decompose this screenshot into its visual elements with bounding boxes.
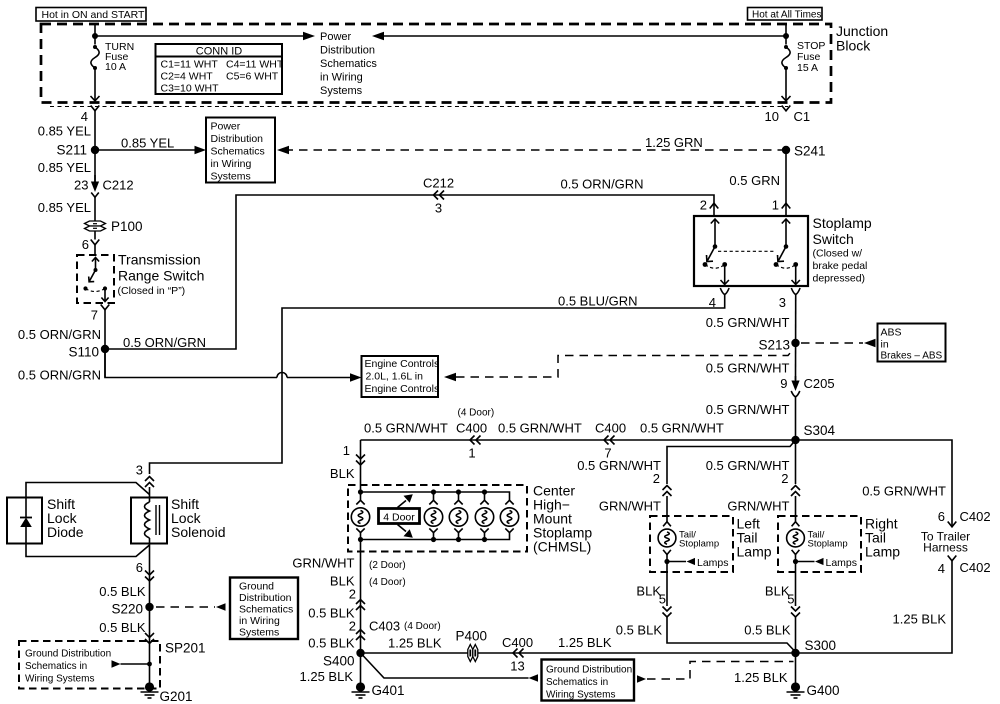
left tail lamp ground + Lamps branch xyxy=(664,555,728,573)
fuse TURN 10A xyxy=(91,41,134,73)
svg-text:C212: C212 xyxy=(423,176,454,191)
svg-text:depressed): depressed) xyxy=(813,273,866,285)
svg-text:S241: S241 xyxy=(794,144,826,159)
svg-text:(CHMSL): (CHMSL) xyxy=(533,539,591,555)
wire: dashed reference from ground box to G400 wire xyxy=(637,662,794,683)
svg-text:Distribution: Distribution xyxy=(320,45,375,57)
ground G400 xyxy=(787,682,840,698)
wire: TURN fuse output with arrow xyxy=(91,68,100,101)
wire: S220 to SP201 xyxy=(149,607,151,683)
svg-text:4 Door: 4 Door xyxy=(383,512,415,524)
svg-text:C212: C212 xyxy=(103,178,134,193)
svg-text:7: 7 xyxy=(91,308,98,323)
wire: left tail ground to S300 xyxy=(616,617,796,652)
svg-text:Ground Distribution: Ground Distribution xyxy=(25,649,111,660)
svg-text:0.5 GRN/WHT: 0.5 GRN/WHT xyxy=(498,421,582,436)
svg-text:(4 Door): (4 Door) xyxy=(458,408,495,419)
wire: STOP fuse output with arrow xyxy=(782,68,791,101)
svg-text:3: 3 xyxy=(435,201,442,216)
wire: S304 right to trailer branch xyxy=(796,440,953,527)
svg-text:0.5 GRN/WHT: 0.5 GRN/WHT xyxy=(364,421,448,436)
svg-text:3: 3 xyxy=(136,463,143,478)
svg-text:Schematics: Schematics xyxy=(211,146,265,158)
svg-text:4: 4 xyxy=(938,561,945,576)
wire: dashed reference S213 to ABS box xyxy=(801,339,876,348)
svg-text:GRN/WHT: GRN/WHT xyxy=(599,499,661,514)
box: ABS in Brakes - ABS xyxy=(878,324,946,362)
svg-text:G201: G201 xyxy=(160,689,193,704)
svg-text:Hot at All Times: Hot at All Times xyxy=(752,10,821,21)
svg-text:0.5 BLK: 0.5 BLK xyxy=(308,636,355,651)
wire: S400 stub to ground distribution reference xyxy=(300,655,539,685)
svg-text:6: 6 xyxy=(938,509,945,524)
connector 5 on right tail ground (chevrons down) xyxy=(791,607,800,618)
node S213 xyxy=(758,338,799,353)
connector C400 pin 13 (inline chevrons) xyxy=(502,635,533,674)
svg-text:6: 6 xyxy=(82,237,89,252)
svg-text:0.5 BLK: 0.5 BLK xyxy=(99,620,146,635)
svg-text:2: 2 xyxy=(781,471,788,486)
wire: S400 to G401 xyxy=(360,653,362,684)
svg-text:BLK: BLK xyxy=(330,466,355,481)
svg-text:0.5 ORN/GRN: 0.5 ORN/GRN xyxy=(123,335,206,350)
svg-text:Brakes – ABS: Brakes – ABS xyxy=(881,351,943,362)
svg-text:C4=11 WHT: C4=11 WHT xyxy=(226,59,284,71)
svg-text:23: 23 xyxy=(74,178,88,193)
transmission range switch (dashed box) xyxy=(77,255,114,303)
connector C205 pin 9 xyxy=(780,376,834,397)
svg-text:4: 4 xyxy=(81,109,88,124)
wire: pin 3 down to S213 / C205 / S304 xyxy=(706,295,796,381)
stoplamp switch box xyxy=(694,216,808,286)
wire: right tail ground to S300 xyxy=(744,617,795,653)
svg-text:0.5 BLK: 0.5 BLK xyxy=(616,623,663,638)
svg-text:S400: S400 xyxy=(323,654,355,669)
svg-text:6: 6 xyxy=(136,560,143,575)
svg-text:Stoplamp: Stoplamp xyxy=(808,539,848,550)
label 0.5 GRN/WHT (left of C400-1) xyxy=(364,421,448,436)
svg-text:1.25 BLK: 1.25 BLK xyxy=(558,635,612,650)
wire: diode parallel top link xyxy=(26,483,150,498)
label Right Tail Lamp xyxy=(865,516,900,560)
svg-text:Wiring Systems: Wiring Systems xyxy=(25,674,94,685)
4 Door pointer box xyxy=(379,494,420,537)
wire: P100 to Transmission Range Switch xyxy=(82,231,100,255)
wire: S304 main feed line to CHMSL drop xyxy=(361,439,796,441)
SP201 dashed box: Ground Distribution Schematics in Wiring Systems xyxy=(19,641,160,689)
label 0.5 GRN/WHT (right of C400-7) xyxy=(640,421,724,436)
connector 2 on CHMSL ground drop (chevrons up) xyxy=(349,587,365,611)
label Left Tail Lamp xyxy=(737,516,772,560)
svg-text:CONN ID: CONN ID xyxy=(196,46,243,58)
svg-text:Power: Power xyxy=(211,121,241,133)
wire: 0.5 GRN from S241 to stoplamp pin 1 xyxy=(729,150,786,203)
junction block dashed box xyxy=(41,24,831,103)
connector C400 pin 7 (inline chevrons) xyxy=(595,421,626,461)
wire: S110 up-branch to C212 and stoplamp switch pin 2 xyxy=(105,195,714,350)
wire: connector to solenoid top xyxy=(149,487,151,498)
wire: battery feed to TURN fuse xyxy=(94,24,96,45)
node S110 xyxy=(68,345,109,360)
svg-text:Power: Power xyxy=(320,31,352,43)
svg-text:S304: S304 xyxy=(804,423,836,438)
CHMSL dashed box xyxy=(348,485,527,552)
connector 5 on left tail ground (chevrons down) xyxy=(663,607,672,618)
stoplamp switch left pole contacts xyxy=(703,219,729,285)
svg-text:5: 5 xyxy=(659,592,666,607)
svg-text:S220: S220 xyxy=(111,602,143,617)
svg-text:Schematics in: Schematics in xyxy=(546,677,608,688)
svg-text:0.5 BLK: 0.5 BLK xyxy=(99,584,146,599)
svg-text:0.5 GRN/WHT: 0.5 GRN/WHT xyxy=(577,458,661,473)
svg-text:0.5 BLU/GRN: 0.5 BLU/GRN xyxy=(558,294,637,309)
shift lock solenoid L1 xyxy=(131,496,226,544)
transmission range switch contacts xyxy=(83,258,108,302)
wire: ground bus S400 to S300 xyxy=(361,636,796,654)
svg-text:0.85 YEL: 0.85 YEL xyxy=(121,136,174,151)
svg-text:C5=6 WHT: C5=6 WHT xyxy=(226,71,279,83)
connector pin 4 (female) below junction block xyxy=(81,106,100,125)
label 0.5 GRN/WHT (below S213) xyxy=(706,361,790,376)
svg-text:15 A: 15 A xyxy=(797,62,818,74)
left tail lamp dashed box xyxy=(650,516,733,572)
svg-text:1.25 GRN: 1.25 GRN xyxy=(645,135,703,150)
CHMSL bulb 4 xyxy=(475,492,493,540)
wire: dashed reference from stoplamp circuit into Engine Controls box xyxy=(444,350,793,382)
svg-text:0.5 GRN/WHT: 0.5 GRN/WHT xyxy=(706,402,790,417)
node S220 xyxy=(111,602,153,617)
svg-text:SP201: SP201 xyxy=(165,641,206,656)
label 0.85 YEL (above S211) xyxy=(38,124,91,139)
svg-text:GRN/WHT: GRN/WHT xyxy=(292,556,354,571)
box: Ground Distribution Schematics in Wiring Systems (bottom) xyxy=(542,660,635,701)
connector C400 pin 1 (inline chevrons) xyxy=(456,421,487,461)
box: Power Distribution Schematics in Wiring Systems xyxy=(206,118,275,183)
left tail lamp bulb xyxy=(658,522,719,555)
CHMSL top bus xyxy=(358,489,510,501)
svg-text:0.5 GRN/WHT: 0.5 GRN/WHT xyxy=(706,315,790,330)
svg-text:in Wiring: in Wiring xyxy=(239,615,280,627)
wire: C212 to P100 xyxy=(94,197,96,221)
svg-text:brake pedal: brake pedal xyxy=(813,260,868,272)
svg-text:0.5 BLK: 0.5 BLK xyxy=(744,623,791,638)
svg-text:C1: C1 xyxy=(794,109,811,124)
svg-text:Distribution: Distribution xyxy=(211,133,264,145)
svg-text:C205: C205 xyxy=(804,376,835,391)
node S241 xyxy=(782,144,826,159)
CONN ID table xyxy=(156,44,284,95)
label "Hot in ON and START" xyxy=(36,8,146,22)
label 0.5 BLK (above S400) xyxy=(308,636,355,651)
svg-text:in Wiring: in Wiring xyxy=(320,72,363,84)
svg-text:0.5 ORN/GRN: 0.5 ORN/GRN xyxy=(561,177,644,192)
stoplamp switch pin 1 (male) xyxy=(772,198,791,217)
connector on left tail feed (chevrons up) xyxy=(663,486,672,497)
wire to Power Distribution text (left arrow) xyxy=(95,32,315,41)
wire: solenoid to S220 xyxy=(136,544,150,608)
label 0.5 ORN/GRN (above S110) xyxy=(18,327,101,342)
right tail lamp bulb xyxy=(787,522,848,555)
label 0.5 BLK (below S220) xyxy=(99,620,146,635)
svg-text:1.25 BLK: 1.25 BLK xyxy=(893,612,947,627)
svg-text:S300: S300 xyxy=(805,638,837,653)
wire from STOP fuse to Power Distribution text (right arrow) xyxy=(372,32,786,41)
svg-text:1: 1 xyxy=(468,446,475,461)
wire: switch to S110 xyxy=(104,310,106,378)
svg-text:Engine Controls: Engine Controls xyxy=(365,383,440,395)
svg-text:1: 1 xyxy=(772,198,779,213)
svg-text:S213: S213 xyxy=(758,338,790,353)
svg-text:Systems: Systems xyxy=(211,171,251,183)
svg-text:C2=4 WHT: C2=4 WHT xyxy=(161,71,214,83)
label 0.85 YEL (below C212) xyxy=(38,200,91,215)
wire: from C402 pin 4 down to S300 xyxy=(796,556,991,654)
node S304 xyxy=(791,423,835,444)
svg-text:0.85 YEL: 0.85 YEL xyxy=(38,160,91,175)
svg-text:Transmission: Transmission xyxy=(118,252,201,268)
node: STOP fuse tap xyxy=(783,33,789,39)
wire: C205 to S304 xyxy=(706,396,796,440)
label BLK (4 Door) xyxy=(330,574,406,589)
stoplamp switch right pole contacts xyxy=(774,219,800,285)
wire: right tail lamp ground drop xyxy=(765,572,796,607)
svg-text:Wiring Systems: Wiring Systems xyxy=(546,690,615,701)
wire: fuse output down to S211 xyxy=(94,111,96,183)
svg-text:(Closed in “P”): (Closed in “P”) xyxy=(118,285,186,297)
connector C212 pin 3 (inline chevrons) xyxy=(423,176,454,216)
grommet P400 xyxy=(456,629,488,662)
wire: drop to CHMSL with inline connector xyxy=(330,440,361,492)
shift lock diode D1 xyxy=(7,496,84,544)
svg-text:P400: P400 xyxy=(456,629,488,644)
svg-text:9: 9 xyxy=(780,376,787,391)
CHMSL bulb 5 xyxy=(500,500,518,532)
label Center High-Mount Stoplamp (CHMSL) xyxy=(533,483,592,555)
CHMSL bottom bus xyxy=(358,533,510,542)
svg-text:Hot in ON and START: Hot in ON and START xyxy=(42,9,145,21)
label (4 Door) above C400 xyxy=(458,408,495,419)
wire: diode parallel bottom link xyxy=(26,544,150,557)
label 0.5 GRN/WHT (between C400s) xyxy=(498,421,582,436)
svg-text:Range Switch: Range Switch xyxy=(118,268,204,284)
svg-text:S211: S211 xyxy=(56,143,87,158)
wire: 0.5 BLU/GRN from pin 4 to shift lock solenoid xyxy=(150,294,725,475)
connector C212 pin 23 (male arrow into female) xyxy=(74,175,134,197)
label 0.85 YEL (below S211) xyxy=(38,160,91,175)
svg-text:10: 10 xyxy=(765,109,779,124)
box: Ground Distribution Schematics in Wiring Systems (S220) xyxy=(230,578,298,640)
svg-text:10 A: 10 A xyxy=(105,61,126,73)
svg-text:Diode: Diode xyxy=(47,524,84,540)
svg-text:G400: G400 xyxy=(807,683,840,698)
svg-text:0.85 YEL: 0.85 YEL xyxy=(38,124,91,139)
ground G401 xyxy=(352,682,405,698)
svg-text:C1=11 WHT: C1=11 WHT xyxy=(161,59,219,71)
svg-text:Switch: Switch xyxy=(813,231,854,247)
svg-text:(2 Door): (2 Door) xyxy=(369,560,406,571)
connector boundary line (C1 / C212 bulkhead) xyxy=(50,106,788,108)
svg-text:1.25 BLK: 1.25 BLK xyxy=(388,636,442,651)
svg-text:0.5 GRN/WHT: 0.5 GRN/WHT xyxy=(862,484,946,499)
wire: CHMSL ground drop to S400 xyxy=(360,540,362,654)
svg-text:in: in xyxy=(881,339,889,351)
label Transmission Range Switch xyxy=(118,252,205,298)
wire: trailer branch to C402 pin 6 xyxy=(862,484,990,527)
SP201 splice arrow xyxy=(112,660,152,668)
svg-text:C402: C402 xyxy=(960,560,991,575)
connector 6 below solenoid (chevrons down) xyxy=(145,571,154,582)
svg-text:BLK: BLK xyxy=(636,584,661,599)
svg-text:Lamp: Lamp xyxy=(737,544,772,560)
stoplamp switch pin 4 (female) xyxy=(709,288,729,310)
stoplamp switch pin 2 (male) xyxy=(700,198,719,217)
svg-text:0.5 GRN: 0.5 GRN xyxy=(729,173,780,188)
svg-text:2: 2 xyxy=(349,619,356,634)
CHMSL bulb 3 xyxy=(449,492,467,540)
svg-text:Stoplamp: Stoplamp xyxy=(679,539,719,550)
wire: into right tail lamp xyxy=(727,496,795,522)
svg-text:ABS: ABS xyxy=(881,327,902,339)
label GRN/WHT (2 Door) xyxy=(292,556,405,572)
svg-text:Schematics: Schematics xyxy=(320,58,377,70)
svg-text:Engine Controls: Engine Controls xyxy=(365,358,440,370)
CHMSL bulb 2 xyxy=(424,492,442,540)
svg-text:in Wiring: in Wiring xyxy=(211,158,252,170)
label 0.5 BLK (above C403) xyxy=(308,606,355,621)
wire: S304 down to right tail lamp xyxy=(706,440,796,486)
connector C1 pin 10 (female) xyxy=(765,106,811,125)
svg-text:1.25 BLK: 1.25 BLK xyxy=(734,670,788,685)
svg-text:C402: C402 xyxy=(960,509,991,524)
svg-text:(4 Door): (4 Door) xyxy=(404,621,441,632)
svg-text:0.5 GRN/WHT: 0.5 GRN/WHT xyxy=(706,361,790,376)
fuse STOP 15A xyxy=(782,40,826,74)
svg-text:Lamp: Lamp xyxy=(865,544,900,560)
svg-text:2: 2 xyxy=(349,587,356,602)
node: TURN fuse tap xyxy=(92,33,98,39)
grommet P100 xyxy=(85,219,143,234)
svg-text:C3=10 WHT: C3=10 WHT xyxy=(161,83,220,95)
svg-text:(4 Door): (4 Door) xyxy=(369,577,406,588)
svg-text:Ground: Ground xyxy=(239,581,274,593)
svg-text:0.5 GRN/WHT: 0.5 GRN/WHT xyxy=(640,421,724,436)
svg-text:Solenoid: Solenoid xyxy=(171,524,226,540)
label "Hot at All Times" xyxy=(748,8,823,21)
label 0.5 BLK (above S220) xyxy=(99,584,146,599)
CHMSL bulb 1 xyxy=(351,492,369,540)
wire: S211 branch to Power Distribution box with arrow xyxy=(95,136,206,155)
svg-text:Systems: Systems xyxy=(320,85,363,97)
label 0.5 ORN/GRN (to stoplamp pin 2) xyxy=(561,177,644,192)
box: Engine Controls 2.0L, 1.6L in Engine Controls xyxy=(362,356,440,397)
svg-text:BLK: BLK xyxy=(765,584,790,599)
svg-text:Systems: Systems xyxy=(239,627,279,639)
wire: S110 to Engine Controls with crossover hop xyxy=(105,349,362,382)
svg-text:Schematics in: Schematics in xyxy=(25,661,87,672)
ground G201 xyxy=(141,682,193,704)
svg-text:Schematics: Schematics xyxy=(239,604,293,616)
svg-text:1: 1 xyxy=(343,443,350,458)
wire: into left tail lamp xyxy=(599,496,667,522)
svg-text:0.5 ORN/GRN: 0.5 ORN/GRN xyxy=(18,368,101,383)
right tail lamp dashed box xyxy=(778,516,861,572)
svg-text:0.5 GRN/WHT: 0.5 GRN/WHT xyxy=(706,458,790,473)
wire: left tail lamp ground drop xyxy=(636,572,667,607)
svg-text:S110: S110 xyxy=(68,345,99,360)
label Junction Block xyxy=(836,23,888,54)
svg-text:3: 3 xyxy=(779,295,786,310)
connector pin 7 below switch xyxy=(91,305,110,323)
svg-text:(Closed w/: (Closed w/ xyxy=(813,248,863,260)
label Stoplamp Switch xyxy=(813,215,872,285)
label 0.5 ORN/GRN (below S110) xyxy=(18,368,101,383)
wire: battery feed to STOP fuse xyxy=(785,24,787,45)
stoplamp switch mechanical link xyxy=(718,250,774,252)
svg-text:C400: C400 xyxy=(502,635,533,650)
svg-text:P100: P100 xyxy=(111,219,143,234)
svg-text:2: 2 xyxy=(700,198,707,213)
svg-text:C400: C400 xyxy=(595,421,626,436)
svg-text:2.0L, 1.6L in: 2.0L, 1.6L in xyxy=(366,371,424,383)
connector C403 pin 2 (chevrons up) xyxy=(349,619,441,641)
svg-text:Stoplamp: Stoplamp xyxy=(813,215,872,231)
svg-text:5: 5 xyxy=(787,592,794,607)
connector chevrons on CHMSL drop (pointing down) xyxy=(356,455,365,466)
label 1.25 BLK (right of C400-13) xyxy=(558,635,612,650)
stoplamp switch pin 3 (female) xyxy=(779,288,800,310)
node S211 xyxy=(56,143,99,158)
node S400 xyxy=(323,649,365,669)
wire: S300 to G400 xyxy=(734,653,796,685)
svg-text:GRN/WHT: GRN/WHT xyxy=(727,499,789,514)
wire: dashed 1.25 GRN from S241 into Power Distribution box xyxy=(277,135,786,154)
wire: S304 branch to left tail lamp xyxy=(577,440,795,486)
node S300 xyxy=(791,638,836,657)
svg-text:0.85 YEL: 0.85 YEL xyxy=(38,200,91,215)
right tail lamp ground + Lamps branch xyxy=(793,555,857,573)
connector SP201 (chevrons down) xyxy=(145,633,206,656)
connector 3 on shift lock feed (chevrons up) xyxy=(136,463,154,488)
svg-text:Distribution: Distribution xyxy=(239,592,292,604)
connector on right tail feed (chevrons up) xyxy=(791,486,800,497)
svg-text:G401: G401 xyxy=(372,683,405,698)
svg-text:Ground Distribution: Ground Distribution xyxy=(546,665,632,676)
svg-text:1.25 BLK: 1.25 BLK xyxy=(300,669,354,684)
wire: dashed reference S220 to ground distribution box xyxy=(156,603,226,611)
svg-text:Harness: Harness xyxy=(923,541,968,555)
svg-text:C403: C403 xyxy=(369,619,400,634)
text: Power Distribution Schematics in Wiring Systems (top) xyxy=(320,31,377,97)
svg-text:Lamps: Lamps xyxy=(697,557,729,569)
svg-text:0.5 ORN/GRN: 0.5 ORN/GRN xyxy=(18,327,101,342)
svg-text:Lamps: Lamps xyxy=(826,557,858,569)
svg-text:Block: Block xyxy=(836,38,871,54)
svg-text:C400: C400 xyxy=(456,421,487,436)
label To Trailer Harness xyxy=(921,530,970,555)
svg-text:13: 13 xyxy=(510,659,524,674)
svg-text:2: 2 xyxy=(653,471,660,486)
